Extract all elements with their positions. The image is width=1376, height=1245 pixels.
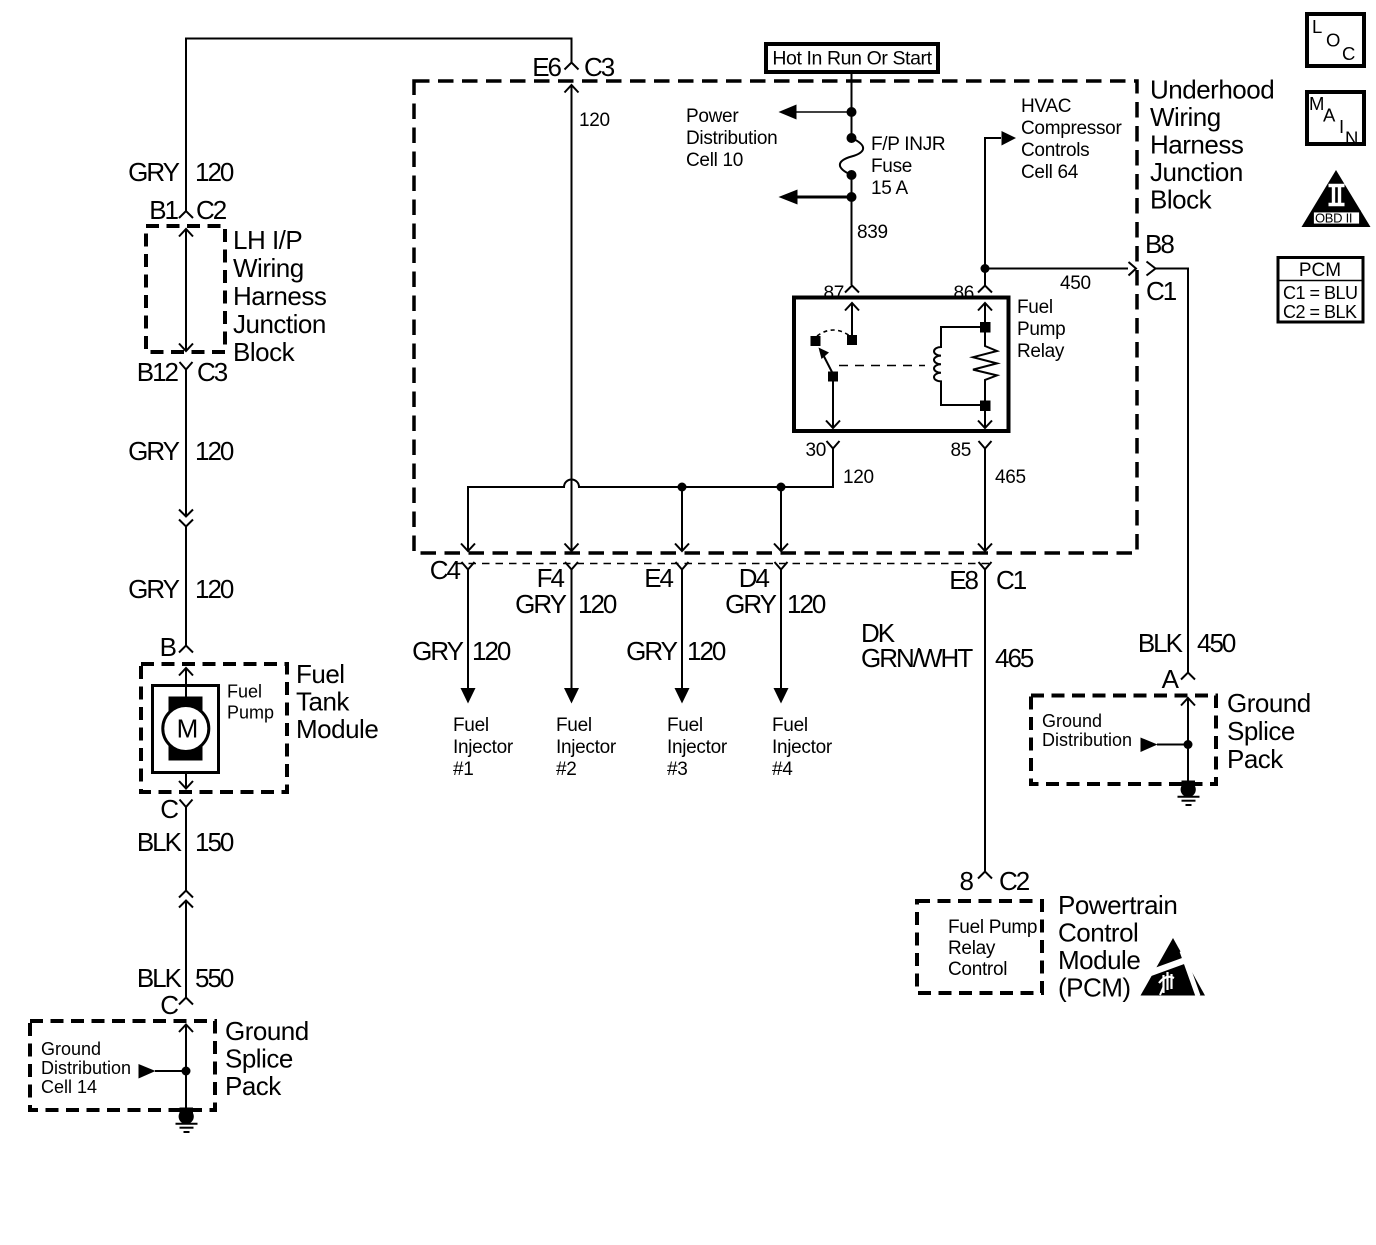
- svg-text:Ground: Ground: [1042, 711, 1102, 731]
- svg-text:Injector: Injector: [772, 737, 833, 758]
- svg-text:839: 839: [857, 222, 888, 243]
- svg-text:Cell 64: Cell 64: [1021, 162, 1079, 183]
- svg-text:Injector: Injector: [453, 737, 514, 758]
- OBD II symbol: [1302, 170, 1371, 227]
- svg-text:GRY: GRY: [515, 589, 567, 619]
- fuel pump motor M: [153, 686, 219, 773]
- svg-text:450: 450: [1197, 628, 1236, 658]
- svg-text:Power: Power: [686, 106, 739, 127]
- svg-text:30: 30: [805, 440, 826, 461]
- junction dot injector 4 branch: [777, 483, 786, 492]
- ESD sensitivity symbol: [1141, 938, 1206, 996]
- svg-text:Fuel: Fuel: [1017, 297, 1053, 318]
- ground splice internal wire with up arrow (right): [1181, 698, 1195, 783]
- wire injector 1 with solid arrow: [461, 570, 476, 704]
- relay mechanical link dashed line: [839, 365, 925, 367]
- svg-text:#2: #2: [556, 759, 577, 780]
- svg-text:OBD II: OBD II: [1315, 211, 1352, 226]
- connector B fork: [179, 646, 193, 653]
- label Fuel Tank Module: [296, 659, 378, 744]
- svg-text:150: 150: [195, 827, 234, 857]
- fuse F/P INJR 15 A: [840, 133, 863, 180]
- label Powertrain Control Module (PCM): [1058, 890, 1177, 1003]
- wire: GRY 120 from LH junction up and over to E6/C3: [186, 39, 572, 212]
- svg-text:BLK: BLK: [137, 827, 183, 857]
- svg-text:C2 = BLK: C2 = BLK: [1283, 302, 1357, 322]
- label Fuel Injector 3: [667, 715, 728, 780]
- connector B12/C3 fork: [180, 362, 193, 381]
- label BLK 150: [137, 827, 234, 857]
- junction dot (power distribution tap 1): [847, 107, 857, 117]
- Fuel Tank Module dashed box: [141, 664, 287, 792]
- label LH I/P Wiring Harness Junction Block: [233, 225, 327, 367]
- label F/P INJR Fuse 15 A: [871, 134, 945, 199]
- svg-text:Relay: Relay: [1017, 341, 1065, 362]
- svg-text:B8: B8: [1145, 229, 1174, 259]
- wire pin 85 to E8: [984, 449, 986, 552]
- svg-text:GRY: GRY: [128, 157, 180, 187]
- label Underhood Wiring Harness Junction Block: [1150, 75, 1274, 215]
- label Ground Distribution Cell 14: [41, 1039, 131, 1097]
- svg-text:A: A: [1162, 664, 1180, 694]
- svg-text:Relay: Relay: [948, 938, 996, 959]
- relay pin 85 internal wire with down arrow: [978, 411, 992, 428]
- svg-text:Pump: Pump: [227, 703, 274, 723]
- wire break chevrons (up): [179, 891, 193, 908]
- label Fuel Injector 1: [453, 715, 514, 780]
- svg-text:Hot In Run Or Start: Hot In Run Or Start: [772, 48, 932, 70]
- svg-text:E8: E8: [949, 565, 978, 595]
- connector fork pin 87: [845, 286, 859, 293]
- svg-text:F/P INJR: F/P INJR: [871, 134, 945, 155]
- label Fuel Injector 4: [772, 715, 833, 780]
- svg-text:GRY: GRY: [626, 636, 678, 666]
- svg-text:Fuse: Fuse: [871, 156, 912, 177]
- svg-text:PCM: PCM: [1299, 260, 1341, 281]
- svg-text:120: 120: [195, 157, 234, 187]
- svg-text:BLK: BLK: [1138, 628, 1184, 658]
- connector fork pin 86: [978, 286, 992, 293]
- svg-text:465: 465: [995, 467, 1026, 488]
- svg-text:Cell 14: Cell 14: [41, 1077, 97, 1097]
- svg-text:120: 120: [579, 110, 610, 131]
- svg-text:Module: Module: [1058, 945, 1140, 975]
- svg-text:Fuel Pump: Fuel Pump: [948, 917, 1037, 938]
- HVAC reference arrow (solid triangle): [1002, 131, 1017, 146]
- relay coil bottom contact square: [980, 401, 991, 412]
- svg-text:Pack: Pack: [225, 1071, 282, 1101]
- svg-text:Splice: Splice: [1227, 716, 1295, 746]
- exit arrow E4: [675, 544, 689, 552]
- connector face dashed line (C4-E8): [455, 563, 990, 565]
- svg-text:GRN/WHT: GRN/WHT: [861, 643, 973, 673]
- fuel pump motor return wire with down arrow: [179, 772, 193, 789]
- Hot In Run Or Start box: [766, 44, 938, 72]
- ground distribution reference arrow (right): [1141, 738, 1158, 753]
- svg-text:GRY: GRY: [412, 636, 464, 666]
- wire branch to E4: [681, 487, 683, 551]
- label Fuel Pump Relay: [1017, 297, 1065, 362]
- label GRY 120 (injector 2): [515, 589, 617, 619]
- label Power Distribution Cell 10: [686, 106, 777, 171]
- label HVAC Compressor Controls Cell 64: [1021, 96, 1122, 183]
- label DK GRN/WHT 465: [861, 618, 1034, 673]
- svg-text:B: B: [160, 632, 176, 662]
- svg-text:Fuel: Fuel: [556, 715, 592, 736]
- Fuel Pump Relay box: [794, 298, 1009, 432]
- svg-text:Powertrain: Powertrain: [1058, 890, 1177, 920]
- LH junction internal wire with entry/exit arrows: [179, 229, 193, 351]
- svg-text:Wiring: Wiring: [233, 253, 304, 283]
- label Ground Splice Pack (left): [225, 1016, 309, 1101]
- svg-text:Fuel: Fuel: [453, 715, 489, 736]
- label Fuel Pump (tank): [227, 682, 274, 723]
- svg-text:LH I/P: LH I/P: [233, 225, 302, 255]
- svg-text:Fuel: Fuel: [667, 715, 703, 736]
- svg-text:C: C: [160, 990, 178, 1020]
- svg-text:550: 550: [195, 963, 234, 993]
- svg-text:120: 120: [687, 636, 726, 666]
- ground symbol (right): [1178, 781, 1200, 806]
- svg-text:120: 120: [843, 467, 874, 488]
- label GRY 120 (third): [128, 574, 234, 604]
- fuel pump motor feed wire with up arrow: [179, 668, 193, 697]
- PCM connector legend box: [1278, 258, 1363, 323]
- svg-text:Splice: Splice: [225, 1044, 293, 1074]
- exit arrow D4: [774, 544, 788, 552]
- svg-text:E4: E4: [644, 563, 673, 593]
- svg-text:(PCM): (PCM): [1058, 973, 1131, 1003]
- svg-text:B12: B12: [137, 357, 179, 387]
- svg-text:A: A: [1323, 105, 1336, 126]
- svg-text:Fuel: Fuel: [227, 682, 262, 702]
- svg-text:86: 86: [953, 283, 974, 304]
- svg-text:Pack: Pack: [1227, 744, 1284, 774]
- wire GRY 120 segment to fuel tank module: [185, 527, 187, 646]
- svg-text:Ground: Ground: [1227, 688, 1311, 718]
- connector fork pin 30: [827, 441, 840, 460]
- wire injector 2 with solid arrow: [564, 570, 579, 704]
- ground splice internal wire with up arrow: [179, 1025, 193, 1111]
- svg-text:Harness: Harness: [233, 281, 327, 311]
- ground distribution stub wire and junction dot (right): [1157, 740, 1193, 749]
- wire pin 86 to HVAC / 450 junction: [985, 138, 1001, 286]
- connector C4 fork: [462, 562, 475, 581]
- exit arrow E8: [978, 544, 992, 552]
- svg-text:N: N: [1345, 128, 1358, 149]
- svg-text:Block: Block: [1150, 185, 1213, 215]
- relay pin 30 internal wire with down arrow: [826, 382, 840, 429]
- svg-text:Underhood: Underhood: [1150, 75, 1274, 105]
- connector C fork (ground splice): [179, 998, 193, 1005]
- label GRY 120 (top left): [128, 157, 234, 187]
- LH I/P junction block dashed box: [146, 226, 225, 352]
- relay coil top contact square: [980, 322, 991, 333]
- power distribution stub 1 with left arrow: [779, 105, 852, 120]
- label Ground Splice Pack (right): [1227, 688, 1311, 774]
- connector B8/C1 fork: [1147, 262, 1168, 276]
- svg-text:GRY: GRY: [725, 589, 777, 619]
- connector fork pin 85: [979, 441, 992, 460]
- wire 450 to B8 with exit arrow: [985, 262, 1136, 276]
- svg-text:Distribution: Distribution: [1042, 730, 1132, 750]
- svg-text:Tank: Tank: [296, 687, 350, 717]
- svg-text:C1: C1: [996, 565, 1027, 595]
- svg-text:Module: Module: [296, 714, 378, 744]
- junction dot injector 3 branch: [678, 483, 687, 492]
- Ground Splice Pack dashed box (left): [30, 1021, 215, 1110]
- svg-text:B1: B1: [149, 195, 178, 225]
- wire pin 30 to injector bus with hop over E6 wire: [468, 449, 833, 552]
- relay switch arm with arrowhead: [819, 348, 834, 375]
- Underhood Wiring Harness Junction Block dashed box: [414, 81, 1137, 553]
- svg-text:120: 120: [472, 636, 511, 666]
- svg-text:87: 87: [823, 283, 844, 304]
- PCM Fuel Pump Relay Control dashed box: [917, 901, 1042, 993]
- wire BLK 550: [185, 901, 187, 998]
- label Ground Distribution (right): [1042, 711, 1132, 750]
- svg-text:C4: C4: [430, 555, 461, 585]
- wire BLK 150: [185, 807, 187, 890]
- ground distribution stub wire and junction dot: [155, 1067, 191, 1076]
- connector E6/C3 fork: [565, 63, 579, 70]
- label Fuel Injector 2: [556, 715, 617, 780]
- connector E4 fork: [676, 562, 689, 581]
- wire DK GRN/WHT 465 down to PCM: [984, 570, 986, 872]
- svg-text:Distribution: Distribution: [686, 128, 777, 149]
- label GRY 120 (injector 4): [725, 589, 826, 619]
- svg-text:HVAC: HVAC: [1021, 96, 1071, 117]
- svg-text:C: C: [1342, 43, 1355, 64]
- connector F4 fork: [565, 562, 578, 581]
- svg-text:Block: Block: [233, 337, 296, 367]
- svg-text:Distribution: Distribution: [41, 1058, 131, 1078]
- ground distribution reference arrow (solid triangle): [139, 1064, 156, 1079]
- junction dot 450/HVAC: [981, 264, 990, 273]
- svg-text:C3: C3: [584, 52, 615, 82]
- svg-text:85: 85: [950, 440, 971, 461]
- label Fuel Pump Relay Control: [948, 917, 1037, 980]
- relay movable contact (lower square): [828, 372, 838, 382]
- svg-text:Junction: Junction: [1150, 157, 1243, 187]
- svg-text:C2: C2: [999, 866, 1030, 896]
- wire injector 4 with solid arrow: [774, 570, 789, 704]
- svg-text:M: M: [177, 714, 197, 744]
- label BLK 450: [1138, 628, 1236, 658]
- svg-text:C3: C3: [197, 357, 228, 387]
- svg-text:120: 120: [195, 574, 234, 604]
- relay pin 86 internal arrow: [978, 303, 992, 322]
- svg-text:Fuel: Fuel: [772, 715, 808, 736]
- svg-text:Compressor: Compressor: [1021, 118, 1122, 139]
- svg-text:Ground: Ground: [41, 1039, 101, 1059]
- wire branch to D4: [780, 487, 782, 551]
- svg-text:C1 = BLU: C1 = BLU: [1283, 283, 1358, 303]
- label GRY 120 (injector 1): [412, 636, 511, 666]
- connector A fork: [1181, 673, 1195, 680]
- relay pin 87 internal arrow and contact: [845, 303, 859, 345]
- svg-text:GRY: GRY: [128, 436, 180, 466]
- svg-text:8: 8: [960, 866, 974, 896]
- wire GRY 120 segment below LH junction: [185, 381, 187, 516]
- svg-text:#4: #4: [772, 759, 793, 780]
- label GRY 120 (second): [128, 436, 234, 466]
- svg-text:#3: #3: [667, 759, 688, 780]
- connector 8/C2 fork: [978, 872, 992, 879]
- svg-text:Harness: Harness: [1150, 130, 1244, 160]
- svg-text:120: 120: [195, 436, 234, 466]
- svg-text:C1: C1: [1146, 276, 1177, 306]
- svg-text:BLK: BLK: [137, 963, 183, 993]
- svg-text:GRY: GRY: [128, 574, 180, 604]
- svg-text:Injector: Injector: [667, 737, 728, 758]
- svg-text:C: C: [160, 794, 178, 824]
- svg-text:#1: #1: [453, 759, 474, 780]
- svg-text:O: O: [1326, 30, 1340, 51]
- svg-text:Injector: Injector: [556, 737, 617, 758]
- wire from Hot box through fuse to relay pin 87: [851, 72, 853, 285]
- relay fixed contact (left square): [811, 336, 821, 346]
- connector E8/C1 fork: [979, 562, 992, 581]
- LOC legend box: [1307, 14, 1364, 66]
- svg-text:Junction: Junction: [233, 309, 326, 339]
- svg-text:120: 120: [787, 589, 826, 619]
- svg-text:E6: E6: [532, 52, 561, 82]
- connector B1/C2 fork: [179, 211, 193, 218]
- power distribution stub 2 with left arrow: [779, 190, 852, 205]
- svg-text:C2: C2: [196, 195, 227, 225]
- svg-text:Wiring: Wiring: [1150, 102, 1221, 132]
- Ground Splice Pack dashed box (right): [1031, 696, 1216, 785]
- svg-text:L: L: [1312, 16, 1322, 37]
- svg-text:Fuel: Fuel: [296, 659, 345, 689]
- svg-text:Ground: Ground: [225, 1016, 309, 1046]
- relay contact dashed arc: [817, 330, 850, 336]
- svg-text:15 A: 15 A: [871, 178, 908, 199]
- svg-text:Control: Control: [1058, 918, 1138, 948]
- connector D4 fork: [775, 562, 788, 581]
- MAIN legend box: [1307, 92, 1364, 149]
- wire injector 3 with solid arrow: [675, 570, 690, 704]
- svg-text:Control: Control: [948, 959, 1007, 980]
- wire from E6 down to injector 2 with entry arrow: [565, 85, 579, 551]
- connector C fork (below tank): [180, 800, 193, 819]
- svg-text:120: 120: [578, 589, 617, 619]
- svg-text:450: 450: [1060, 273, 1091, 294]
- exit arrow C4: [461, 544, 475, 552]
- label GRY 120 (injector 3): [626, 636, 726, 666]
- relay resistor zigzag: [973, 332, 997, 401]
- svg-text:Pump: Pump: [1017, 319, 1065, 340]
- exit arrow F4: [565, 544, 579, 552]
- junction dot (power distribution tap 2): [847, 192, 857, 202]
- wire BLK 450 down right side: [1156, 269, 1189, 673]
- svg-text:465: 465: [995, 643, 1034, 673]
- svg-text:Controls: Controls: [1021, 140, 1089, 161]
- wire break chevrons (down): [179, 510, 193, 527]
- relay coil: [934, 327, 985, 405]
- svg-text:I: I: [1339, 116, 1344, 137]
- label BLK 550: [137, 963, 234, 993]
- svg-text:Cell 10: Cell 10: [686, 150, 743, 171]
- ground symbol (left): [176, 1108, 198, 1133]
